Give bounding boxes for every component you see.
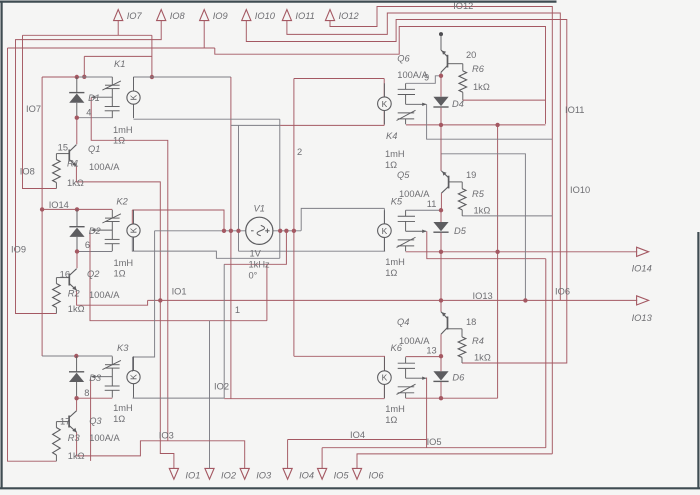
wire IO2 line right bbox=[224, 398, 384, 400]
svg-text:1: 1 bbox=[235, 305, 240, 315]
svg-text:IO9: IO9 bbox=[213, 11, 228, 21]
wire K4 coil top bbox=[294, 78, 384, 80]
svg-text:IO3: IO3 bbox=[256, 471, 272, 481]
svg-text:IO1: IO1 bbox=[185, 471, 200, 481]
svg-text:K: K bbox=[129, 374, 139, 380]
wire K4 contact bottom line bbox=[406, 124, 546, 126]
svg-text:9: 9 bbox=[424, 73, 429, 83]
IO connector arrow IO7 bbox=[114, 10, 123, 21]
IO connector arrow IO10 bbox=[242, 10, 251, 21]
svg-text:IO4: IO4 bbox=[299, 471, 314, 481]
svg-text:1mH: 1mH bbox=[385, 257, 405, 267]
wire node 13 to D6 bbox=[440, 356, 442, 371]
svg-text:K: K bbox=[382, 99, 388, 109]
svg-text:6: 6 bbox=[85, 240, 90, 250]
wire node 4 to K1 stem bottom bbox=[77, 117, 113, 119]
diode D2 bbox=[69, 226, 84, 228]
IO connector arrow IO14 bbox=[637, 247, 649, 256]
wire K1 armature to IO3 line bbox=[91, 97, 168, 440]
junction node 8 bbox=[74, 396, 78, 400]
wire K1 coil riser to V1 and IO2 line bbox=[230, 77, 232, 399]
svg-text:1kΩ: 1kΩ bbox=[474, 205, 491, 215]
wire Q3 base bbox=[56, 421, 69, 423]
svg-text:IO7: IO7 bbox=[127, 11, 143, 21]
wire D3 anode bbox=[76, 356, 78, 372]
wire node 8 to K3 stem bottom bbox=[77, 397, 113, 399]
svg-text:100A/A: 100A/A bbox=[89, 290, 120, 300]
junction node 6 bbox=[75, 249, 79, 253]
transistor Q2 bbox=[68, 274, 70, 286]
svg-text:K1: K1 bbox=[114, 59, 125, 69]
wire branch to IO13 dot bbox=[441, 154, 525, 301]
wire D1 anode bbox=[76, 77, 78, 93]
svg-text:K: K bbox=[129, 227, 139, 233]
wire K2 coil bottom return bbox=[132, 238, 279, 259]
junction IO1 line bbox=[158, 298, 162, 302]
wire node 11 to D5 bbox=[440, 210, 442, 222]
wire K2 arm riser bbox=[266, 264, 268, 320]
junction D1 link bbox=[82, 75, 86, 79]
relay K5 contact bbox=[405, 210, 407, 216]
svg-text:Q1: Q1 bbox=[88, 144, 100, 154]
relay K1 coil bbox=[127, 91, 140, 104]
svg-text:D4: D4 bbox=[452, 99, 464, 109]
svg-text:13: 13 bbox=[426, 345, 436, 355]
svg-text:IO9: IO9 bbox=[11, 245, 26, 255]
wire ring bottom / K5 coil bottom line bbox=[239, 250, 386, 252]
svg-text:0°: 0° bbox=[249, 270, 258, 280]
wire D1 cathode bbox=[76, 103, 78, 118]
wire D6 cathode bbox=[440, 382, 442, 398]
svg-text:IO2: IO2 bbox=[214, 382, 229, 392]
junction IO13 line bbox=[439, 298, 443, 302]
wire IO14 to K2 top bbox=[42, 208, 112, 210]
wire Q1 base bbox=[56, 153, 69, 155]
wire K4 armature line bbox=[427, 104, 553, 139]
IO connector arrow IO8 bbox=[157, 10, 166, 21]
junction bus x497 on IO14 line bbox=[495, 250, 499, 254]
svg-text:100A/A: 100A/A bbox=[399, 336, 430, 346]
junction D4 bottom bbox=[439, 123, 443, 127]
wire Q3 emitter IO3 net bbox=[77, 432, 245, 468]
wire Q6 emitter stub bbox=[440, 34, 442, 50]
svg-text:1kΩ: 1kΩ bbox=[473, 82, 490, 92]
svg-text:K: K bbox=[129, 94, 139, 100]
svg-text:IO6: IO6 bbox=[369, 471, 385, 481]
junction D1 top bbox=[75, 75, 79, 79]
wire R5 bottom line bbox=[462, 215, 552, 217]
wire IO7 riser to K1 line bbox=[151, 35, 153, 77]
svg-text:IO4: IO4 bbox=[350, 430, 365, 440]
wire Q6 base bbox=[448, 63, 463, 65]
svg-text:19: 19 bbox=[466, 170, 476, 180]
diode D5 bbox=[433, 222, 448, 231]
wire K5 armature line bbox=[427, 231, 546, 259]
wire IO9 bus to R3 bottom bbox=[8, 48, 57, 461]
svg-text:1mH: 1mH bbox=[385, 149, 405, 159]
svg-text:1Ω: 1Ω bbox=[113, 414, 125, 424]
diode D6 bbox=[433, 371, 448, 380]
wire node 6 to K2 stem bottom bbox=[77, 251, 112, 253]
svg-text:R3: R3 bbox=[68, 433, 81, 443]
svg-text:IO10: IO10 bbox=[255, 11, 276, 21]
wire IO12 staircase bus bbox=[330, 7, 552, 454]
transistor Q5 bbox=[448, 176, 450, 189]
relay K3 contact bbox=[111, 356, 113, 364]
wire IO1-IO13 line bbox=[148, 299, 638, 301]
junction V1 line x224 bbox=[222, 229, 226, 233]
wire K5 coil top stub bbox=[383, 208, 385, 223]
IO connector arrow IO4 bbox=[283, 468, 292, 479]
svg-text:1Ω: 1Ω bbox=[385, 268, 397, 278]
svg-text:IO10: IO10 bbox=[570, 185, 590, 195]
svg-text:IO8: IO8 bbox=[170, 11, 186, 21]
wire K4 coil stub top bbox=[383, 79, 385, 98]
svg-text:1kΩ: 1kΩ bbox=[68, 304, 85, 314]
wire D5 cathode bbox=[440, 233, 442, 252]
wire Q2 base bbox=[56, 277, 69, 279]
svg-text:16: 16 bbox=[60, 270, 70, 280]
wire D4 to Q5 emitter bbox=[440, 125, 442, 171]
wire IO7 horizontal bbox=[23, 34, 152, 36]
svg-text:1Ω: 1Ω bbox=[385, 160, 397, 170]
wire D1 junction riser bbox=[83, 56, 85, 76]
svg-text:IO13: IO13 bbox=[632, 313, 653, 323]
svg-text:K2: K2 bbox=[116, 197, 128, 207]
wire IO11 staircase to IO13 line bbox=[287, 13, 560, 300]
wire IO5 arrow stem bbox=[321, 448, 323, 469]
svg-text:15: 15 bbox=[58, 143, 68, 153]
resistor R3 bbox=[53, 428, 61, 456]
wire K2 coil stub bbox=[131, 210, 133, 224]
wire K4 contact top to node 9 bbox=[406, 76, 441, 84]
sheet border bottom bbox=[0, 487, 700, 489]
wire K6 armature down bbox=[426, 378, 428, 448]
wire bus to IO5 bbox=[545, 259, 547, 448]
relay K2 contact bbox=[111, 210, 113, 218]
wire node 9 to D4 bbox=[440, 76, 442, 97]
wire R1 top stub bbox=[55, 154, 57, 160]
junction D5 bottom on IO14 line bbox=[439, 250, 443, 254]
svg-text:2: 2 bbox=[297, 147, 302, 157]
wire R5 top stub bbox=[461, 182, 463, 189]
svg-text:IO14: IO14 bbox=[632, 264, 652, 274]
diode D1 bbox=[69, 92, 84, 94]
svg-text:1V: 1V bbox=[250, 248, 262, 258]
svg-text:V1: V1 bbox=[254, 203, 265, 213]
IO connector arrow IO5 bbox=[318, 468, 327, 479]
wire D4 cathode bbox=[440, 108, 442, 125]
wire IO8 net to R2 bottom bbox=[16, 21, 162, 314]
wire D2 anode bbox=[76, 209, 78, 226]
junction D2 top bbox=[75, 207, 79, 211]
wire K1 coil bottom bbox=[134, 118, 280, 120]
wire Q2 emitter to IO1 line bbox=[77, 291, 148, 306]
wire K3 coil bottom IO2 line bbox=[133, 397, 225, 399]
diode D4 bbox=[433, 97, 448, 106]
svg-text:K4: K4 bbox=[386, 131, 397, 141]
svg-text:R1: R1 bbox=[67, 159, 79, 169]
wire K3 armature down bbox=[90, 379, 92, 461]
wire to K3 top bbox=[42, 355, 112, 357]
svg-text:Q2: Q2 bbox=[87, 269, 100, 279]
wire IO9 arrow stem bbox=[203, 21, 205, 48]
IO connector arrow IO11 bbox=[282, 10, 291, 21]
wire K5 contact top to node 11 bbox=[406, 209, 441, 211]
IO connector arrow IO1 bbox=[169, 468, 178, 479]
wire K2 coil top to V1 bbox=[132, 210, 224, 231]
junction bus x497 top bbox=[495, 123, 499, 127]
junction node 13 bbox=[439, 354, 443, 358]
junction node 11 bbox=[439, 208, 443, 212]
resistor R5 bbox=[458, 189, 466, 210]
wire R4 top stub bbox=[461, 329, 463, 337]
svg-text:IO6: IO6 bbox=[555, 287, 570, 297]
svg-text:Q3: Q3 bbox=[89, 416, 102, 426]
sheet border right bbox=[697, 232, 699, 488]
wire Q5 collector to node 11 bbox=[440, 193, 442, 210]
wire D1 junction link bbox=[84, 55, 152, 57]
svg-text:17: 17 bbox=[60, 417, 70, 427]
wire node 6 to Q2 collector bbox=[76, 252, 78, 269]
wire K2 armature bbox=[90, 230, 267, 321]
junction IO7 on K1 coil line bbox=[150, 75, 154, 79]
svg-text:D1: D1 bbox=[88, 93, 100, 103]
wire K4 coil bottom bbox=[280, 124, 384, 126]
wire D1 junction to K1 stem bbox=[77, 76, 113, 78]
wire to K6 coil top bbox=[294, 356, 385, 370]
svg-text:D2: D2 bbox=[89, 226, 102, 236]
svg-text:Q5: Q5 bbox=[397, 170, 410, 180]
AC source V1 bbox=[246, 217, 273, 244]
wire IO4 line bbox=[288, 439, 427, 441]
IO connector arrow IO9 bbox=[200, 10, 209, 21]
svg-text:1kΩ: 1kΩ bbox=[68, 451, 85, 461]
svg-text:20: 20 bbox=[466, 50, 476, 60]
wire riser bus x497 bbox=[497, 125, 499, 398]
wire IO9 horizontal bbox=[8, 47, 215, 49]
IO connector arrow IO3 bbox=[240, 468, 249, 479]
junction D3 top bbox=[74, 354, 78, 358]
svg-text:100A/A: 100A/A bbox=[89, 162, 120, 172]
junction V1 line x293 bbox=[292, 229, 296, 233]
IO connector arrow IO12 bbox=[325, 10, 334, 21]
wire IO9 staircase to K4 bottom bus bbox=[215, 27, 546, 124]
wire descender to IO2 line bbox=[223, 264, 225, 398]
svg-text:1mH: 1mH bbox=[113, 403, 133, 413]
transistor Q1 bbox=[68, 150, 70, 162]
relay K4 coil bbox=[378, 97, 392, 111]
resistor R4 bbox=[458, 337, 466, 358]
wire IO14 left bus bbox=[41, 77, 43, 356]
wire IO7 arrow stem bbox=[117, 21, 119, 36]
relay K6 coil bbox=[378, 371, 392, 385]
transistor Q3 bbox=[68, 416, 70, 428]
svg-text:1Ω: 1Ω bbox=[385, 415, 397, 425]
transistor Q4 bbox=[447, 317, 449, 330]
svg-text:11: 11 bbox=[427, 199, 437, 209]
wire ring right vertical bbox=[279, 119, 281, 258]
svg-text:100A/A: 100A/A bbox=[399, 189, 430, 199]
IO connector arrow IO6 bbox=[352, 468, 361, 479]
wire D2 cathode bbox=[76, 237, 78, 252]
wire R3 bottom stub bbox=[55, 455, 57, 461]
svg-text:D6: D6 bbox=[452, 372, 465, 382]
wire R6 bottom stub bbox=[462, 92, 464, 100]
wire ring left vertical bbox=[238, 125, 240, 251]
resistor R2 bbox=[53, 284, 61, 308]
wire R1 bottom stub bbox=[55, 183, 57, 189]
svg-text:1Ω: 1Ω bbox=[113, 135, 125, 145]
svg-text:K3: K3 bbox=[117, 343, 129, 353]
wire R6 bottom to bus bbox=[463, 99, 546, 101]
relay K6 contact bbox=[405, 357, 407, 363]
wire to IO13 line bbox=[440, 252, 442, 301]
resistor R6 bbox=[459, 71, 467, 92]
wire D3 cathode bbox=[76, 382, 78, 398]
svg-text:IO11: IO11 bbox=[295, 11, 314, 21]
wire K5 contact bottom / IO14 line bbox=[406, 251, 638, 253]
svg-text:R5: R5 bbox=[472, 189, 485, 199]
svg-text:IO3: IO3 bbox=[159, 431, 174, 441]
wire to D1 top bbox=[42, 76, 77, 78]
svg-text:R4: R4 bbox=[472, 336, 484, 346]
wire IO5 line bbox=[322, 447, 546, 449]
wire 1kHz line riser bbox=[224, 231, 286, 264]
junction IO14 bus bbox=[40, 207, 44, 211]
wire ring top bbox=[231, 124, 280, 126]
svg-text:IO8: IO8 bbox=[20, 167, 35, 177]
wire IO6 line bbox=[357, 454, 552, 469]
wire K6 contact bottom line bbox=[406, 397, 498, 399]
svg-text:D5: D5 bbox=[454, 226, 467, 236]
svg-text:1kΩ: 1kΩ bbox=[474, 352, 491, 362]
wire V1 to K5 coil top bbox=[301, 208, 384, 230]
wire V1 right lead bbox=[273, 230, 301, 232]
wire Q6 collector stub bbox=[440, 72, 442, 76]
svg-text:1mH: 1mH bbox=[385, 404, 405, 414]
svg-text:IO12: IO12 bbox=[339, 11, 360, 21]
svg-text:IO1: IO1 bbox=[172, 287, 187, 297]
wire IO4 arrow stem bbox=[287, 440, 289, 469]
diode D3 bbox=[69, 371, 84, 373]
junction D6 bottom bbox=[439, 396, 443, 400]
svg-text:8: 8 bbox=[84, 388, 89, 398]
wire V1 left lead bbox=[155, 230, 246, 232]
wire Q4 base bbox=[448, 328, 463, 330]
relay K4 contact bbox=[405, 83, 407, 89]
wire K4 coil stub bottom bbox=[383, 111, 385, 125]
svg-text:IO14: IO14 bbox=[49, 200, 69, 210]
relay K5 coil bbox=[378, 224, 392, 238]
wire R6 top stub bbox=[462, 64, 464, 71]
wire R2 bottom stub bbox=[55, 308, 57, 314]
svg-text:1Ω: 1Ω bbox=[114, 268, 126, 278]
wire IO7 bus to R1 bottom bbox=[23, 35, 57, 188]
transistor Q6 bbox=[447, 55, 449, 68]
svg-text:4: 4 bbox=[86, 107, 91, 117]
junction node 4 bbox=[75, 116, 79, 120]
svg-text:1mH: 1mH bbox=[113, 125, 133, 135]
wire K5 coil bottom stub bbox=[383, 238, 385, 252]
svg-text:Q4: Q4 bbox=[397, 317, 409, 327]
wire R3 top stub bbox=[55, 422, 57, 428]
sheet border left bbox=[1, 2, 3, 489]
svg-text:K: K bbox=[382, 226, 388, 236]
wire V1 to K3 coil top bbox=[133, 231, 155, 357]
junction V1 line x280 bbox=[278, 229, 282, 233]
resistor R1 bbox=[53, 160, 61, 183]
wire K1 coil top bbox=[134, 76, 231, 78]
svg-text:IO11: IO11 bbox=[565, 105, 584, 115]
wire Q1 emitter IO1 net bbox=[76, 166, 173, 468]
wire IO13 line to Q4 emitter bbox=[440, 300, 442, 311]
junction V1 line x286 bbox=[284, 229, 288, 233]
wire Q4 collector to node 13 bbox=[440, 334, 442, 356]
svg-text:100A/A: 100A/A bbox=[89, 433, 120, 443]
svg-text:K: K bbox=[382, 373, 388, 383]
svg-text:1kHz: 1kHz bbox=[249, 259, 271, 269]
svg-text:R6: R6 bbox=[472, 64, 485, 74]
junction V1 line x230 bbox=[229, 229, 233, 233]
pin dot Q6 collector stub bbox=[439, 32, 443, 36]
sheet border top bbox=[0, 1, 557, 3]
svg-text:1mH: 1mH bbox=[114, 258, 134, 268]
svg-text:IO5: IO5 bbox=[334, 471, 350, 481]
IO connector arrow IO13 bbox=[637, 296, 649, 305]
wire IO10 staircase to R4 bottom bbox=[246, 20, 567, 364]
wire R2 top stub bbox=[55, 278, 57, 284]
junction V1 line x238 bbox=[236, 229, 240, 233]
wire node 4 to Q1 collector bbox=[76, 118, 78, 145]
junction node 9 bbox=[439, 74, 443, 78]
IO connector arrow IO2 bbox=[205, 468, 214, 479]
wire K3 coil top stub bbox=[132, 357, 134, 372]
junction IO13 line x525 bbox=[523, 298, 527, 302]
svg-text:IO7: IO7 bbox=[26, 104, 41, 114]
wire R5 bottom stub bbox=[461, 210, 463, 216]
wire R4 bottom stub bbox=[461, 357, 463, 363]
svg-text:IO2: IO2 bbox=[221, 471, 237, 481]
svg-text:IO13: IO13 bbox=[473, 291, 493, 301]
wire node 8 to Q3 collector bbox=[76, 398, 78, 410]
wire node 2 riser K4 coil top to K6 coil top bbox=[293, 79, 295, 357]
wire to IO2 arrow bbox=[209, 321, 211, 469]
svg-text:IO5: IO5 bbox=[427, 437, 442, 447]
svg-text:18: 18 bbox=[466, 317, 476, 327]
svg-text:IO12: IO12 bbox=[453, 1, 473, 11]
wire K6 contact top to node 13 bbox=[406, 356, 441, 358]
relay K3 coil bbox=[127, 371, 140, 384]
wire Q5 base bbox=[449, 181, 463, 183]
wire K6 coil bottom stub bbox=[383, 385, 385, 399]
svg-text:Q6: Q6 bbox=[397, 53, 410, 63]
relay K1 contact bbox=[111, 77, 113, 85]
svg-text:R2: R2 bbox=[68, 288, 81, 298]
relay K2 coil bbox=[127, 224, 140, 237]
svg-text:1kΩ: 1kΩ bbox=[67, 178, 84, 188]
svg-text:D3: D3 bbox=[89, 373, 102, 383]
